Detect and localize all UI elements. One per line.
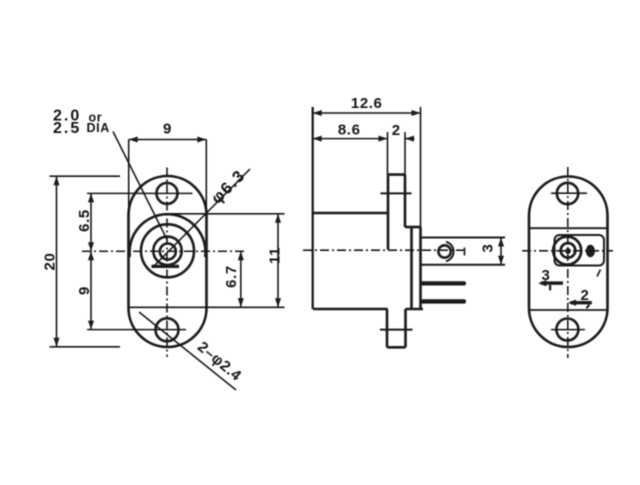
svg-text:8.6: 8.6: [338, 122, 361, 139]
svg-text:20: 20: [42, 253, 59, 271]
svg-text:9: 9: [163, 121, 172, 138]
svg-text:2: 2: [581, 287, 590, 304]
svg-text:9: 9: [76, 286, 93, 295]
svg-text:6.7: 6.7: [223, 265, 240, 288]
svg-text:2: 2: [392, 122, 401, 139]
svg-text:3: 3: [542, 267, 551, 284]
svg-text:6.5: 6.5: [76, 209, 93, 232]
svg-text:3: 3: [480, 244, 497, 253]
svg-text:12.6: 12.6: [351, 95, 383, 112]
svg-text:11: 11: [267, 247, 284, 264]
svg-text:DIA: DIA: [87, 121, 110, 135]
svg-text:2.5: 2.5: [53, 120, 81, 137]
svg-text:φ6.3: φ6.3: [208, 166, 249, 207]
